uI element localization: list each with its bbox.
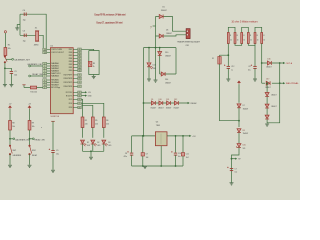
ground C6 xyxy=(253,79,257,81)
ground aux rail xyxy=(154,80,158,82)
fuse F1 xyxy=(219,55,221,56)
wire LED D3 to bus xyxy=(103,144,105,151)
svg-text:C12: C12 xyxy=(231,66,234,68)
diode D16 out a xyxy=(267,61,271,65)
wire R5 to LED xyxy=(92,128,94,138)
wire zener down jog xyxy=(232,148,240,183)
svg-text:D17: D17 xyxy=(266,79,269,81)
svg-text:7805: 7805 xyxy=(156,125,160,127)
svg-text:10u: 10u xyxy=(56,154,59,156)
svg-text:RC7/RX: RC7/RX xyxy=(66,92,73,94)
resistor R10 MCLR xyxy=(24,87,30,89)
svg-text:R6: R6 xyxy=(106,120,108,122)
svg-text:RELAY: RELAY xyxy=(191,102,198,105)
diode D10 xyxy=(158,52,162,56)
capacitor C11 output xyxy=(182,136,184,153)
wire regulator ground bus xyxy=(132,165,183,167)
svg-text:D6: D6 xyxy=(166,30,168,32)
svg-text:CALIBRATE_SW: CALIBRATE_SW xyxy=(15,139,30,142)
switch SW1 xyxy=(9,145,12,155)
svg-text:D12: D12 xyxy=(174,99,177,101)
wire R3 loop to ground xyxy=(93,75,95,77)
LED D13 xyxy=(147,63,151,67)
svg-text:10u: 10u xyxy=(235,172,238,174)
svg-text:+5V: +5V xyxy=(9,104,12,106)
wire crystal left rail xyxy=(19,14,21,35)
svg-text:1N4007: 1N4007 xyxy=(266,67,272,69)
svg-text:D16: D16 xyxy=(267,58,270,60)
svg-text:C11: C11 xyxy=(186,153,189,155)
diode D6 xyxy=(159,34,163,38)
ground SW1 xyxy=(8,165,12,167)
resistor pullup SW1 xyxy=(9,121,12,131)
resistor pullup SW2 xyxy=(28,121,31,131)
svg-text:14: 14 xyxy=(44,52,46,54)
svg-text:D11: D11 xyxy=(166,99,169,101)
svg-text:1N4007: 1N4007 xyxy=(271,106,277,108)
connector CN1 transformer auxiliary xyxy=(186,29,190,39)
svg-text:1N4007: 1N4007 xyxy=(166,33,172,35)
svg-text:SW1: SW1 xyxy=(13,150,17,152)
svg-text:4MHz: 4MHz xyxy=(34,45,39,47)
svg-text:10u: 10u xyxy=(248,70,251,72)
diode D10 relay chain xyxy=(159,101,163,105)
svg-text:D7: D7 xyxy=(243,105,245,107)
svg-text:104: 104 xyxy=(14,75,17,77)
svg-text:1N4007: 1N4007 xyxy=(165,83,171,85)
wire bank bottom pair 2 xyxy=(248,44,255,46)
wire R3 loop xyxy=(89,51,99,75)
svg-text:220: 220 xyxy=(85,123,88,125)
IC U1 left pins xyxy=(43,48,65,89)
svg-text:15p: 15p xyxy=(23,41,26,43)
ground under C5 xyxy=(51,170,55,172)
svg-text:R3: R3 xyxy=(93,63,95,65)
svg-text:35: 35 xyxy=(79,64,81,66)
ground under key xyxy=(3,85,7,87)
svg-text:C8: C8 xyxy=(125,153,127,155)
wire bank col1 to fuse line xyxy=(220,44,229,56)
svg-text:7: 7 xyxy=(44,76,45,78)
svg-text:RC6/TX: RC6/TX xyxy=(66,95,73,97)
wire diode D6 row xyxy=(156,35,187,36)
wire OSC1 top xyxy=(20,14,47,49)
wire power to resistor SW2 xyxy=(29,109,31,121)
svg-text:10u: 10u xyxy=(178,156,181,158)
svg-text:10k: 10k xyxy=(32,126,35,128)
svg-text:1N4007: 1N4007 xyxy=(265,87,271,89)
diode D17 neutral xyxy=(266,81,270,85)
svg-text:RB2: RB2 xyxy=(69,64,73,66)
svg-text:104: 104 xyxy=(146,157,149,159)
svg-text:R2: R2 xyxy=(85,120,87,122)
svg-text:1k: 1k xyxy=(93,66,95,68)
svg-text:?: ? xyxy=(150,26,152,30)
svg-text:5V1: 5V1 xyxy=(243,148,246,150)
power arrow SW2 branch xyxy=(28,106,31,109)
resistor R3 xyxy=(88,61,92,66)
capacitor C6 branch xyxy=(254,45,256,66)
wire regulator ground pin xyxy=(160,146,162,166)
svg-text:R8: R8 xyxy=(12,122,14,124)
svg-text:1N4007: 1N4007 xyxy=(158,107,164,109)
wire power to R1 xyxy=(4,33,6,49)
svg-text:1: 1 xyxy=(44,87,45,89)
svg-text:32: 32 xyxy=(79,92,81,94)
svg-text:RB1: RB1 xyxy=(69,67,73,69)
terminal RELAY net arrow xyxy=(188,102,190,104)
svg-text:OSC1/CLKIN: OSC1/CLKIN xyxy=(51,49,62,51)
terminal 9V branch xyxy=(232,158,236,160)
diode D12 relay chain xyxy=(174,101,178,105)
svg-text:C9: C9 xyxy=(146,153,148,155)
svg-text:16F877A: 16F877A xyxy=(50,115,59,118)
svg-text:10k: 10k xyxy=(8,48,11,50)
capacitor C5 xyxy=(51,151,54,153)
wire rect loop right rail xyxy=(175,48,177,74)
wire R6 to LED xyxy=(103,128,105,138)
ground under C1 xyxy=(9,85,13,87)
resistor R2 xyxy=(81,117,84,128)
svg-text:GND: GND xyxy=(88,96,93,98)
wire switch to ground SW1 xyxy=(9,154,11,165)
svg-text:1N4007: 1N4007 xyxy=(166,107,172,109)
svg-text:RD4/PSP4: RD4/PSP4 xyxy=(64,86,73,88)
wire MCU pin to column R6 xyxy=(81,103,103,117)
ground C12 xyxy=(226,79,230,81)
power terminal cap branch xyxy=(51,120,55,122)
svg-text:F1: F1 xyxy=(212,58,214,60)
power terminal top left xyxy=(4,31,6,33)
power terminal MCLR pullup xyxy=(23,85,25,88)
resistor RB5 bank xyxy=(254,33,256,44)
svg-text:104: 104 xyxy=(186,157,189,159)
svg-text:29: 29 xyxy=(79,78,81,80)
LED D2 xyxy=(91,140,95,144)
wire C5 to ground xyxy=(52,153,54,170)
wire key net stub xyxy=(6,58,12,60)
wire unregulated rail xyxy=(143,48,145,136)
power arrow SW1 branch xyxy=(9,106,12,109)
wire rect loop left rail xyxy=(159,48,161,74)
wire bank bottom pair 1 xyxy=(235,44,242,46)
svg-text:R9: R9 xyxy=(32,122,34,124)
svg-text:10: 10 xyxy=(237,40,239,42)
svg-text:RD5/PSP5: RD5/PSP5 xyxy=(64,82,73,84)
ground regulator bus xyxy=(143,166,147,168)
diode D7 xyxy=(237,104,241,108)
svg-text:1N4007: 1N4007 xyxy=(243,108,249,110)
wire net RELAY_SW to RA5 xyxy=(30,75,42,77)
svg-text:220: 220 xyxy=(106,123,109,125)
svg-text:10: 10 xyxy=(243,40,245,42)
diode D21 chain xyxy=(265,115,269,119)
wire VSS cap branch xyxy=(52,121,54,150)
diode D9 relay chain xyxy=(151,101,155,105)
wire to C1 xyxy=(5,68,11,71)
terminal NEUTRAL xyxy=(283,82,285,84)
wire aux bottom rail xyxy=(144,47,177,49)
terminal +5V net arrow xyxy=(189,135,191,137)
wire switch to ground SW2 xyxy=(29,154,31,165)
wire OUT A line xyxy=(262,62,283,64)
svg-text:1N4007: 1N4007 xyxy=(165,56,171,58)
ground crystal rail xyxy=(15,28,19,30)
capacitor C7 xyxy=(230,169,233,171)
capacitor C8 input xyxy=(131,136,133,153)
wire bus to ground xyxy=(90,151,92,157)
wire net CALIBRATE_KEY to RA1 xyxy=(30,65,42,67)
svg-text:20: 20 xyxy=(79,107,81,109)
svg-text:22: 22 xyxy=(79,99,81,101)
svg-text:RB7: RB7 xyxy=(69,49,73,51)
wire MCU pin to column R2 xyxy=(81,99,82,117)
svg-text:CN1: CN1 xyxy=(185,45,189,47)
crystal X1 xyxy=(36,31,39,41)
wire resistor to switch SW2 xyxy=(29,130,31,145)
wire regulator input xyxy=(132,135,156,137)
wire aux rail to ground xyxy=(155,48,157,80)
ground SW2 xyxy=(28,165,32,167)
capacitor C9 xyxy=(142,136,144,153)
wire D7 to tee xyxy=(238,108,240,127)
wire relay diode chain xyxy=(144,102,189,104)
wire net stub SW2 xyxy=(30,138,33,140)
svg-text:RB0: RB0 xyxy=(69,70,73,72)
svg-text:RA5/AN4: RA5/AN4 xyxy=(51,75,59,78)
resistor RB2 bank xyxy=(234,33,236,44)
svg-text:D3: D3 xyxy=(108,142,110,144)
ground LED bus xyxy=(89,157,93,159)
wire neutral line xyxy=(272,82,283,84)
svg-text:D10: D10 xyxy=(165,52,168,54)
wire LED D2 to bus xyxy=(92,144,94,151)
svg-text:D14: D14 xyxy=(165,79,168,81)
svg-text:27: 27 xyxy=(79,86,81,88)
wire diode D5 row xyxy=(156,17,187,32)
svg-text:TRANSFORMER AUXILARY: TRANSFORMER AUXILARY xyxy=(177,40,201,43)
svg-text:28: 28 xyxy=(79,82,81,84)
capacitor C1 xyxy=(10,71,13,73)
svg-text:RC4: RC4 xyxy=(69,103,73,105)
diode D5 xyxy=(159,15,163,19)
pushbutton key xyxy=(4,56,7,63)
svg-text:RB6: RB6 xyxy=(69,52,73,54)
svg-text:RB3: RB3 xyxy=(69,61,73,63)
svg-text:15p: 15p xyxy=(23,20,26,22)
diode D19 chain xyxy=(265,104,269,108)
wire net stub SW1 xyxy=(10,138,13,140)
svg-text:+5V: +5V xyxy=(28,104,31,106)
switch SW2 xyxy=(29,145,32,155)
svg-text:10: 10 xyxy=(230,40,232,42)
wire R2 to LED xyxy=(82,128,84,138)
svg-text:1u: 1u xyxy=(231,70,233,72)
resistor R6 xyxy=(102,117,105,128)
wire bank top pair 1 xyxy=(228,27,235,32)
svg-text:NEUTRAL: NEUTRAL xyxy=(286,82,300,85)
svg-text:D2: D2 xyxy=(97,142,99,144)
IC U1 PIC16F877A body xyxy=(50,48,73,114)
svg-text:C5: C5 xyxy=(56,150,58,152)
ground under R3 loop xyxy=(92,77,96,79)
svg-text:R1: R1 xyxy=(8,44,10,46)
wire aux rail xyxy=(155,17,157,48)
svg-text:CALIBRATE_KEY: CALIBRATE_KEY xyxy=(14,58,31,61)
svg-text:a: a xyxy=(41,127,42,129)
svg-text:1N4007: 1N4007 xyxy=(271,95,277,97)
svg-text:D10: D10 xyxy=(159,99,162,101)
wire LED D13 branch xyxy=(148,48,150,62)
svg-text:40: 40 xyxy=(79,49,81,51)
zener D20 xyxy=(236,144,241,148)
wire ground stub crystal xyxy=(17,25,20,28)
LED D3 xyxy=(102,140,106,144)
svg-text:R10 10k: R10 10k xyxy=(30,91,37,93)
wire D8 to zener xyxy=(238,133,240,143)
wire bank col6 down xyxy=(261,44,263,84)
IC U1 right pins xyxy=(64,48,82,109)
wire OSC2 bottom xyxy=(20,35,47,52)
terminal OUT A xyxy=(283,62,285,64)
wire RB7 to R3 loop xyxy=(81,49,93,50)
svg-text:CALIBRATE_KEY: CALIBRATE_KEY xyxy=(27,63,43,66)
svg-text:30: 30 xyxy=(79,75,81,77)
resistor RB6 bank xyxy=(261,33,263,44)
wire resistor to switch SW1 xyxy=(9,130,11,145)
resistor RB3 bank xyxy=(241,33,243,44)
wire right return rail xyxy=(267,63,280,123)
LED D1 xyxy=(81,140,85,144)
capacitor C3 xyxy=(24,34,26,37)
wire rect loop bottom xyxy=(160,73,176,75)
svg-text:21: 21 xyxy=(79,103,81,105)
wire bank top pair 2 xyxy=(242,27,249,32)
wire LED ground bus xyxy=(83,150,104,152)
wire neutral stub xyxy=(262,82,265,84)
power arrow aux dc xyxy=(238,81,241,84)
power arrow VSS pin xyxy=(81,95,85,97)
svg-text:MCLR/Vpp: MCLR/Vpp xyxy=(51,87,60,89)
wire power arrow to D7 xyxy=(238,84,240,103)
wire zener chain xyxy=(266,83,268,123)
svg-text:D8: D8 xyxy=(243,130,245,132)
wire power to resistor SW1 xyxy=(9,109,11,121)
svg-text:33: 33 xyxy=(79,70,81,72)
svg-text:1N4007: 1N4007 xyxy=(174,107,180,109)
svg-text:D1: D1 xyxy=(87,142,89,144)
svg-text:1N4007: 1N4007 xyxy=(151,107,157,109)
capacitor C12 branch xyxy=(227,55,229,66)
ground zener chain xyxy=(265,124,269,126)
svg-text:RD3: RD3 xyxy=(69,107,73,109)
wire LED D1 to bus xyxy=(82,144,84,151)
svg-text:RELAY_SW: RELAY_SW xyxy=(35,139,45,142)
wire fuse down to tee xyxy=(220,64,240,121)
wire bank top pair 3 xyxy=(255,27,262,32)
resistor R1 xyxy=(4,48,7,56)
svg-text:10: 10 xyxy=(257,40,259,42)
svg-text:RD6/PSP6: RD6/PSP6 xyxy=(64,78,73,80)
diode D18 chain xyxy=(265,93,269,97)
svg-text:D13: D13 xyxy=(153,64,156,66)
svg-text:C6: C6 xyxy=(248,66,250,68)
svg-text:Except R7-R8, resistances 1/4: Except R7-R8, resistances 1/4 Watt rated xyxy=(95,13,126,17)
wire regulator output xyxy=(167,135,189,137)
terminal AC input mark xyxy=(153,25,156,27)
wire C1 to ground xyxy=(10,74,12,85)
svg-text:220: 220 xyxy=(95,123,98,125)
diode D14 xyxy=(161,72,165,76)
svg-text:OSC2/CLKOUT: OSC2/CLKOUT xyxy=(51,52,65,54)
wire LED D13 to ground xyxy=(148,67,150,79)
svg-text:D9: D9 xyxy=(151,99,153,101)
svg-text:C10: C10 xyxy=(178,153,181,155)
IC U2 7805 body xyxy=(155,132,167,146)
wire MCU pin to column R5 xyxy=(81,105,92,117)
diode D8 xyxy=(237,129,241,133)
ground bottom right xyxy=(230,183,234,185)
svg-text:RB5: RB5 xyxy=(69,55,73,57)
diode D11 relay chain xyxy=(167,101,171,105)
svg-text:10k: 10k xyxy=(12,126,15,128)
svg-text:31: 31 xyxy=(79,95,81,97)
svg-text:OUT A: OUT A xyxy=(286,62,293,65)
svg-text:C1: C1 xyxy=(14,71,16,73)
svg-text:1N4007: 1N4007 xyxy=(161,10,167,12)
power arrow VDD pin xyxy=(81,91,85,93)
svg-text:Except C7, capacitances 50V ra: Except C7, capacitances 50V rated xyxy=(97,20,123,24)
svg-text:RC5: RC5 xyxy=(69,99,73,101)
capacitor C10 output xyxy=(175,136,177,153)
svg-text:C7: C7 xyxy=(235,168,237,170)
svg-text:RELAY_SW: RELAY_SW xyxy=(32,73,42,76)
svg-text:RB4: RB4 xyxy=(69,58,73,60)
resistor R5 xyxy=(91,117,94,128)
svg-text:D20: D20 xyxy=(243,145,246,147)
ground LED D13 xyxy=(147,79,151,81)
svg-text:470u: 470u xyxy=(123,156,127,158)
capacitor C4 xyxy=(24,13,26,16)
svg-text:U3: U3 xyxy=(156,121,158,123)
svg-text:10: 10 xyxy=(250,40,252,42)
resistor RB4 bank xyxy=(247,33,249,44)
svg-text:1N4007: 1N4007 xyxy=(243,133,249,135)
svg-text:D5: D5 xyxy=(162,7,164,9)
svg-text:RD7/PSP7: RD7/PSP7 xyxy=(64,75,73,77)
wire key to C1 node xyxy=(4,63,6,84)
resistor RB1 bank xyxy=(227,33,229,44)
svg-text:R5: R5 xyxy=(95,120,97,122)
svg-text:10 ohm 5 Watts resistors: 10 ohm 5 Watts resistors xyxy=(231,21,258,24)
svg-text:10: 10 xyxy=(263,40,265,42)
svg-text:SW2: SW2 xyxy=(32,150,36,152)
